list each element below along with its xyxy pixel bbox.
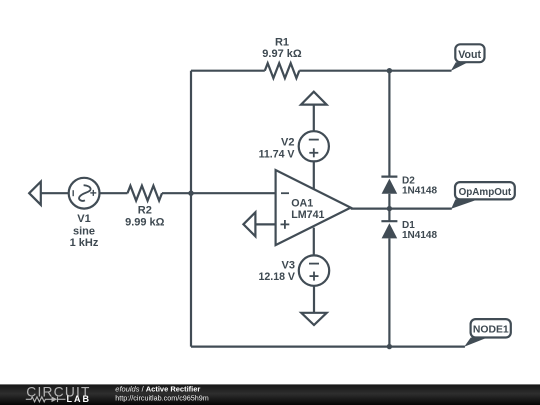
svg-text:1N4148: 1N4148 (402, 186, 437, 197)
ground (V1 negative terminal, pointing left) (29, 182, 41, 205)
wire (ground to op-amp + input) (255, 223, 275, 225)
wire (node A to op-amp inverting input) (191, 192, 276, 194)
diode D1 1N4148 (381, 221, 397, 238)
label V2 11.74 V (259, 137, 295, 161)
flag NODE1 (464, 319, 511, 347)
wire (left vertical, node A to top and bottom) (190, 71, 192, 347)
wire (op-amp output to OpAmpOut / node C) (351, 208, 452, 210)
svg-text:1 kHz: 1 kHz (70, 237, 99, 249)
svg-text:11.74 V: 11.74 V (259, 148, 295, 160)
diode D2 1N4148 (381, 177, 397, 194)
svg-text:LM741: LM741 (291, 209, 324, 221)
svg-text:sine: sine (73, 226, 95, 238)
voltage source V1 (sine) (69, 178, 100, 209)
ground (V2 negative terminal, pointing up) (301, 92, 327, 105)
CircuitLab logo: resistor-diode squiggle (26, 397, 66, 403)
svg-text:efoulds / Active Rectifier: efoulds / Active Rectifier (115, 385, 200, 394)
node D junction dot (387, 344, 392, 349)
svg-text:R2: R2 (138, 205, 152, 217)
wire (D2 anode to node C) (388, 194, 390, 221)
resistor R2 (128, 186, 163, 201)
flag OpAmpOut (451, 182, 515, 209)
label R2 9.99 kOhm (125, 205, 165, 229)
wire (V3 to ground) (313, 286, 315, 313)
svg-text:NODE1: NODE1 (473, 325, 509, 336)
wire (bottom, node D to NODE1) (191, 346, 465, 348)
label D1 1N4148 (402, 220, 437, 241)
ground (below V3, pointing down) (301, 313, 326, 325)
svg-text:9.97 kΩ: 9.97 kΩ (262, 48, 302, 60)
wire (V3 to op-amp V- pin) (313, 228, 315, 256)
svg-text:LAB: LAB (67, 394, 92, 404)
flag Vout (451, 44, 485, 71)
svg-text:OpAmpOut: OpAmpOut (459, 187, 512, 198)
wire (R1 to Vout / node B) (299, 70, 451, 72)
svg-text:1N4148: 1N4148 (402, 230, 437, 241)
svg-text:12.18 V: 12.18 V (258, 271, 295, 283)
node B junction dot (387, 68, 392, 73)
svg-text:V2: V2 (281, 137, 294, 149)
svg-text:9.99 kΩ: 9.99 kΩ (125, 216, 165, 228)
ground (op-amp non-inverting input, pointing left) (243, 212, 255, 236)
voltage source V3 (299, 255, 329, 285)
node C junction dot (387, 206, 392, 211)
wire (V2 to op-amp V+ pin) (313, 161, 315, 188)
svg-text:R1: R1 (275, 36, 289, 48)
wire (top left, to R1) (191, 70, 265, 72)
resistor R1 (265, 63, 300, 78)
voltage source V2 (299, 131, 329, 161)
label R1 9.97 kOhm (262, 36, 302, 60)
wire (R2 to node A) (162, 192, 191, 194)
svg-text:V3: V3 (282, 259, 295, 271)
op-amp OA1 LM741 (276, 170, 351, 245)
svg-text:V1: V1 (77, 213, 90, 225)
label V3 12.18 V (258, 259, 295, 283)
node A junction dot (188, 191, 193, 196)
svg-text:Vout: Vout (458, 49, 481, 61)
wire (ground to V1) (41, 192, 69, 194)
svg-text:http://circuitlab.com/c965h9m: http://circuitlab.com/c965h9m (115, 394, 208, 403)
wire (node B down to D2 cathode) (388, 71, 390, 177)
label V1 sine 1 kHz (70, 213, 99, 249)
footer bar (0, 384, 540, 405)
wire (V1 to R2) (100, 192, 128, 194)
label D2 1N4148 (402, 176, 437, 197)
wire (D1 anode down to node D) (388, 238, 390, 346)
wire (ground to V2) (313, 105, 315, 132)
